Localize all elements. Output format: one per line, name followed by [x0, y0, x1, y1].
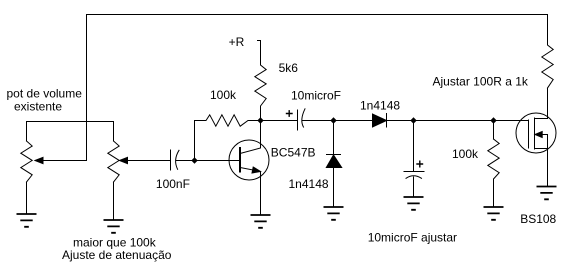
Q2 gate bar: [528, 120, 530, 148]
svg-text:Ajuste de atenuação: Ajuste de atenuação: [62, 248, 172, 262]
wire top rail from +R feed corner to drain resistor: [87, 14, 548, 16]
svg-text:pot de volume: pot de volume: [7, 87, 83, 101]
node D2 junction: [330, 117, 336, 123]
ground GND1 (left pot): [17, 214, 37, 227]
wire D1 to cap node: [387, 120, 414, 122]
diode D2 1n4148 (shunt, vertical, cathode up): [327, 154, 341, 156]
wire C3 to ground: [413, 177, 415, 197]
wire collector node to C2: [261, 120, 298, 122]
capacitor C2 10microF: [297, 110, 299, 130]
node base junction: [191, 157, 197, 163]
ground GND6 (R3): [484, 207, 504, 220]
resistor R3 100k (gate pulldown, vertical): [488, 139, 499, 207]
wire C2 to diode node: [302, 120, 334, 122]
ground GND5 (C3): [404, 197, 424, 210]
wire Q2 source to ground: [547, 135, 549, 187]
wire left vertical drop to wiper: [86, 15, 88, 161]
svg-text:10microF: 10microF: [291, 89, 341, 103]
wire gate node down to R3: [493, 121, 495, 140]
svg-text:BC547B: BC547B: [271, 146, 316, 160]
wiper arrow of P1: [35, 157, 43, 163]
node gate junction: [490, 117, 496, 123]
svg-text:5k6: 5k6: [279, 61, 299, 75]
wire right pot top stub: [113, 122, 115, 142]
svg-text:Ajustar 100R a 1k: Ajustar 100R a 1k: [433, 74, 529, 88]
wire right pot to ground: [113, 182, 115, 220]
wire left pot top stub: [26, 122, 28, 142]
capacitor C3 10microF ajustar (electrolytic, vertical): [404, 171, 424, 173]
wire node down to D2: [333, 121, 335, 155]
Q2 channel bar: [534, 118, 536, 149]
wire R4 to Q2 drain: [547, 88, 549, 119]
capacitor C1 100nF: [170, 150, 172, 170]
node C3 junction: [410, 117, 416, 123]
capacitor C2 10microF plus sign: [287, 111, 293, 116]
ground GND2 (right pot): [104, 220, 124, 233]
mosfet Q2 BS108 circle: [516, 113, 556, 153]
svg-text:10microF ajustar: 10microF ajustar: [368, 231, 457, 245]
svg-text:1n4148: 1n4148: [360, 99, 400, 113]
wire D2 to ground: [333, 168, 335, 208]
+R supply terminal tick: [258, 40, 261, 42]
wire cap node down to C3: [413, 121, 415, 172]
wire left pot to ground: [26, 182, 28, 214]
capacitor C3 10microF ajustar plus sign: [417, 161, 423, 167]
wire node to D1: [334, 120, 373, 122]
Q2 body arrow head: [535, 132, 542, 138]
svg-text:+R: +R: [229, 35, 245, 49]
Q1 emitter arrow: [252, 167, 261, 173]
svg-text:1n4148: 1n4148: [289, 177, 329, 191]
wiper arrow of P2: [120, 157, 128, 163]
wire left wiper horizontal: [42, 160, 87, 162]
svg-text:100k: 100k: [210, 88, 237, 102]
Q1 collector: [240, 121, 261, 154]
wire cap node to gate node: [414, 120, 494, 122]
ground GND7 (Q2 source): [537, 187, 557, 200]
Q1 emitter: [240, 168, 261, 216]
transistor Q1 BC547B circle: [229, 140, 269, 180]
potentiometer P2 (maior que 100k, atenuacao): [108, 141, 119, 182]
wire C1 to base node: [176, 160, 195, 162]
Q2 body arrow line: [535, 134, 548, 136]
resistor R1 5k6 (collector load, vertical): [255, 41, 266, 121]
wire wiper to C1: [128, 160, 171, 162]
svg-text:100nF: 100nF: [156, 177, 190, 191]
svg-text:100k: 100k: [452, 147, 479, 161]
Q2 source link: [535, 148, 548, 150]
Q1 base bar: [239, 148, 241, 172]
svg-text:BS108: BS108: [520, 212, 556, 226]
resistor R4 Ajustar 100R a 1k (drain, vertical): [542, 15, 553, 89]
diode D1 1n4148 (series, horizontal): [373, 114, 387, 127]
wire gate node to Q2 gate: [494, 120, 529, 122]
potentiometer P1 (existing volume pot, left): [21, 141, 32, 182]
node collector junction: [257, 117, 263, 123]
resistor R2 100k (feedback, horizontal): [195, 115, 261, 126]
ground GND4 (D2): [324, 207, 344, 220]
wire base node up to R2: [194, 121, 196, 161]
svg-text:existente: existente: [14, 100, 62, 114]
ground GND3 (Q1 emitter): [251, 215, 271, 228]
wire pot top rail: [27, 121, 114, 123]
wire base node to Q1 base: [195, 160, 240, 162]
Q2 drain link: [535, 118, 548, 120]
